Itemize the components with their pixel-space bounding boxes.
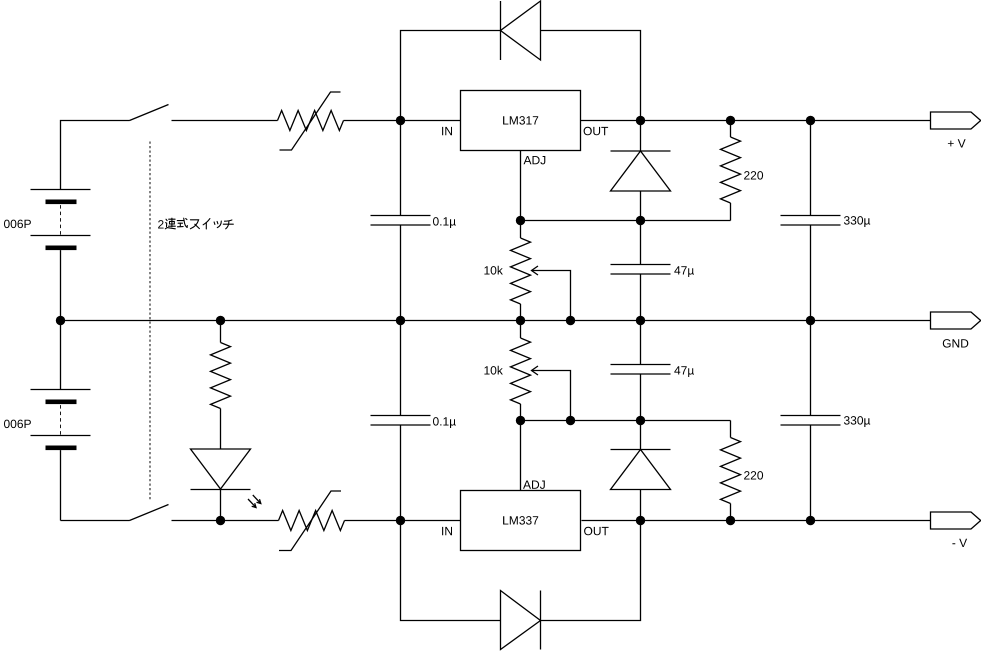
capacitor C3 47u top (611, 221, 671, 321)
glyph イ (203, 219, 210, 229)
dashed gang line (149, 142, 151, 501)
LED D5 emission arrows (248, 495, 261, 508)
resistor R2 220 bottom (721, 421, 741, 521)
junction dot (ADJ1 rail) at x=520 (516, 216, 525, 225)
label C6 330u (844, 416, 870, 427)
pin label IN (U2) (442, 527, 452, 535)
label C1 0.1u (433, 217, 456, 228)
pin label IN (U1) (442, 127, 452, 135)
glyph ッ (214, 221, 221, 228)
diode D1 (top bypass, pointing left) (501, 1, 541, 60)
pin label ADJ (U1) (524, 156, 546, 164)
capacitor C4 47u bottom (611, 321, 671, 421)
junction dot (ADJ2 rail) at x=640 (636, 416, 645, 425)
wire switch to rheostat (172, 120, 278, 122)
junction dot (GND rail) at x=640 (636, 316, 645, 325)
capacitor C1 0.1u top (371, 121, 431, 321)
wire LM317 OUT to +V terminal (581, 120, 931, 122)
label gang switch (158, 220, 164, 228)
potentiometer RV1 10k zigzag (511, 221, 531, 321)
junction dot (+V rail) at x=400 (396, 116, 405, 125)
potentiometer RV2 wiper arrow (532, 366, 571, 421)
wire ADJ1 rail (521, 220, 731, 222)
capacitor C2 0.1u bottom (371, 321, 431, 521)
label B2 006P (4, 420, 31, 429)
junction dot (-V rail) at x=640 (636, 516, 645, 525)
junction dot (GND rail) at x=520 (516, 316, 525, 325)
junction dot (+V rail) at x=730 (726, 116, 735, 125)
diode D4 protection bottom (611, 421, 671, 521)
regulator U1 LM317 (461, 91, 581, 151)
junction dot (GND rail) at x=60 (56, 316, 65, 325)
label C5 330u (844, 216, 870, 227)
junction dot (-V rail) at x=730 (726, 516, 735, 525)
junction dot (-V rail) at x=810 (806, 516, 815, 525)
junction dot (GND rail) at x=220 (216, 316, 225, 325)
junction dot (GND rail) at x=570 (566, 316, 575, 325)
switch S1b lever (130, 505, 169, 521)
rheostat VR2 arrow (279, 491, 341, 551)
wire bottom bypass loop left (401, 521, 501, 621)
wire ADJ2 rail (521, 420, 731, 422)
terminal -V (931, 512, 981, 547)
rheostat VR1 arrow (280, 92, 341, 150)
resistor R1 220 top (721, 121, 741, 221)
label B1 006P (4, 220, 31, 229)
wire rheostat to LM337 IN (345, 520, 461, 522)
wire U2 ADJ pin (520, 421, 522, 491)
switch S1a lever (130, 105, 169, 121)
wire top bypass loop right (541, 31, 641, 121)
wire LM337 OUT to -V terminal (582, 520, 931, 522)
rheostat VR2 zigzag (279, 511, 345, 531)
capacitor C6 330u bottom (781, 321, 841, 521)
glyph ス (190, 220, 199, 229)
wire -V rail left of switch (61, 520, 130, 522)
label C2 0.1u (433, 417, 456, 428)
junction dot (+V rail) at x=810 (806, 116, 815, 125)
diode D3 protection top (611, 121, 671, 221)
wire U1 ADJ pin (520, 151, 522, 221)
terminal GND (931, 312, 981, 348)
label C3 47u (674, 266, 694, 277)
wire switch to rheostat bottom (172, 520, 279, 522)
junction dot (GND rail) at x=810 (806, 316, 815, 325)
potentiometer RV1 wiper arrow (532, 266, 571, 321)
label C4 47u (674, 366, 694, 377)
junction dot (+V rail) at x=640 (636, 116, 645, 125)
junction dot (ADJ2 rail) at x=520 (516, 416, 525, 425)
regulator U2 LM337 (461, 491, 581, 551)
wire top rail left of switch (61, 121, 130, 190)
pin label OUT (U1) (584, 127, 609, 136)
glyph 式 (177, 218, 187, 227)
glyph チ (223, 220, 233, 229)
label RV1 10k (484, 266, 503, 275)
junction dot (-V rail) at x=400 (396, 516, 405, 525)
battery B1 006P (31, 190, 91, 321)
junction dot (ADJ2 rail) at x=570 (566, 416, 575, 425)
junction dot (ADJ1 rail) at x=640 (636, 216, 645, 225)
resistor R3 LED series (211, 321, 231, 450)
pin label OUT (U2) (584, 527, 609, 536)
glyph 連 (165, 218, 175, 229)
junction dot (-V rail) at x=220 (216, 516, 225, 525)
capacitor C5 330u top (781, 121, 841, 321)
diode D2 (bottom bypass, pointing right) (501, 591, 541, 650)
label R2 220 (744, 471, 763, 480)
battery B2 006P (31, 321, 91, 521)
wire rheostat to LM317 IN (344, 120, 461, 122)
terminal +V (931, 112, 981, 148)
wire GND rail (61, 320, 931, 322)
LED D5 (191, 449, 251, 521)
potentiometer RV2 10k zigzag (511, 321, 531, 421)
wire bottom bypass loop right (541, 521, 641, 621)
label RV2 10k (484, 366, 503, 375)
wire top bypass loop left (401, 31, 501, 121)
label R1 220 (744, 171, 763, 180)
rheostat VR1 zigzag (278, 111, 344, 131)
label gang switch kanji (hand-drawn glyphs) (165, 218, 233, 229)
junction dot (GND rail) at x=400 (396, 316, 405, 325)
pin label ADJ (U2) (523, 481, 545, 489)
